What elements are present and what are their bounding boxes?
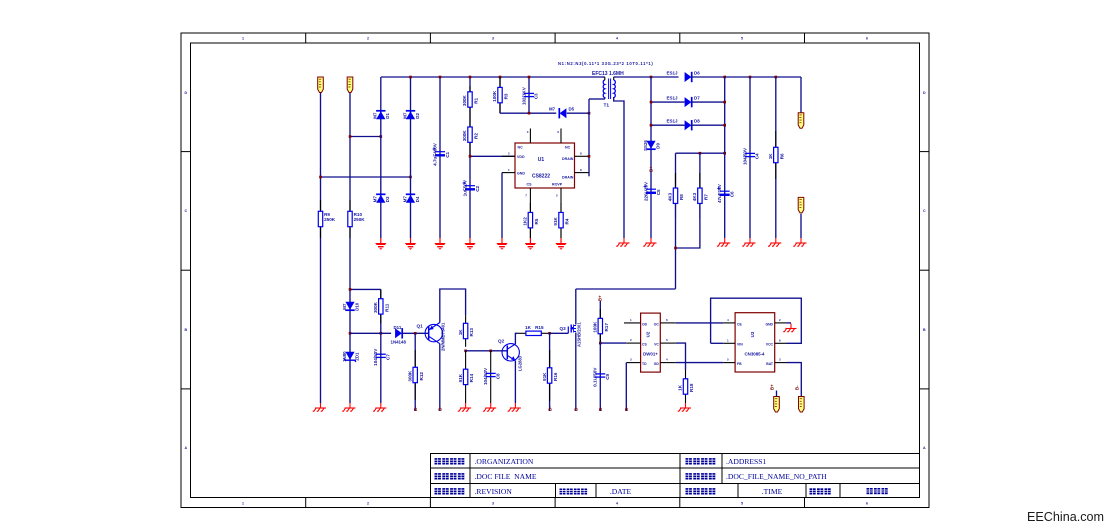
wire R3 column xyxy=(499,77,501,113)
svg-text:EFC13 1.6MH: EFC13 1.6MH xyxy=(592,71,624,77)
svg-text:GND: GND xyxy=(765,323,773,327)
svg-text:R11: R11 xyxy=(384,303,389,312)
ground pin1 column xyxy=(313,403,326,411)
svg-text:GD: GD xyxy=(654,362,660,366)
svg-text:102/1KV: 102/1KV xyxy=(521,86,526,105)
svg-text:U2: U2 xyxy=(645,331,650,337)
svg-text:LG2883: LG2883 xyxy=(518,355,523,371)
svg-text:Q2: Q2 xyxy=(498,339,505,344)
svg-text:1: 1 xyxy=(242,502,244,506)
wire top rail left xyxy=(381,76,602,78)
svg-text:.ADDRESS1: .ADDRESS1 xyxy=(726,457,767,466)
capacitor C3 xyxy=(524,92,534,94)
svg-text:1K: 1K xyxy=(678,384,683,391)
bridge right column wire xyxy=(410,77,412,238)
sheet border frame xyxy=(181,33,929,508)
svg-text:300K: 300K xyxy=(407,370,412,382)
svg-text:C6: C6 xyxy=(730,191,735,197)
ground C7 xyxy=(373,403,386,411)
wire pin1 to bridge xyxy=(321,176,411,178)
wire secondary bottom to ground xyxy=(614,97,624,238)
svg-text:C5: C5 xyxy=(656,189,661,195)
resistor R15 xyxy=(518,332,526,334)
svg-text:D: D xyxy=(923,91,926,95)
svg-text:91K: 91K xyxy=(542,372,547,381)
diode D7 xyxy=(685,97,692,107)
resistor R1 xyxy=(469,86,471,92)
diode D4 xyxy=(406,195,415,203)
wire divider line xyxy=(676,152,725,154)
svg-text:M7: M7 xyxy=(373,196,378,203)
resistor R12 xyxy=(414,333,416,411)
svg-text:250K: 250K xyxy=(354,217,366,222)
svg-text:.ORGANIZATION: .ORGANIZATION xyxy=(475,457,534,466)
svg-text:VC: VC xyxy=(654,343,659,347)
ground bridge right xyxy=(405,238,416,250)
svg-text:R2: R2 xyxy=(474,133,479,139)
svg-text:1N80: 1N80 xyxy=(342,351,347,362)
wire secondary top rail xyxy=(616,76,679,78)
resistor R18 xyxy=(685,370,687,379)
ground C1 xyxy=(434,238,445,250)
wire D10 ZD1 column xyxy=(349,238,351,403)
resistor R17 xyxy=(599,301,601,343)
svg-text:R17: R17 xyxy=(604,323,609,332)
wire R17 to U2 xyxy=(600,342,626,344)
diode D5 xyxy=(560,108,567,118)
svg-text:R18: R18 xyxy=(689,383,694,392)
ground U1 xyxy=(496,238,507,250)
resistor R16 xyxy=(549,333,551,411)
svg-text:Q1: Q1 xyxy=(417,324,424,329)
svg-text:D8: D8 xyxy=(694,119,700,124)
svg-text:220U16V: 220U16V xyxy=(643,181,648,201)
wire VDD feed xyxy=(470,155,515,157)
wire snub rail bottom-left xyxy=(350,288,381,290)
svg-text:5: 5 xyxy=(741,37,743,41)
svg-text:1K2: 1K2 xyxy=(523,217,528,226)
transistor Q3 mosfet xyxy=(567,327,569,334)
resistor R5 xyxy=(529,202,531,238)
svg-text:6: 6 xyxy=(866,37,868,41)
svg-text:B: B xyxy=(184,328,187,332)
svg-text:BAT: BAT xyxy=(766,362,774,366)
svg-text:4K3: 4K3 xyxy=(692,192,697,201)
svg-text:C4: C4 xyxy=(755,153,760,159)
svg-text:N1:N2:N3(0.11*1 33G.23*2 10T0.: N1:N2:N3(0.11*1 33G.23*2 10T0.11*1) xyxy=(558,61,653,66)
svg-text:B-: B- xyxy=(438,406,443,411)
svg-text:D5: D5 xyxy=(569,107,575,112)
svg-text:91K: 91K xyxy=(553,216,558,225)
svg-text:1K: 1K xyxy=(525,325,532,330)
diode D10 xyxy=(345,302,354,310)
svg-text:B-: B- xyxy=(598,406,603,411)
zener ZD1 xyxy=(345,352,354,360)
svg-text:D11: D11 xyxy=(394,325,402,330)
svg-text:.DOC FILE NAME: .DOC FILE NAME xyxy=(475,472,537,481)
svg-text:R10: R10 xyxy=(354,212,363,217)
svg-text:T1: T1 xyxy=(604,103,610,109)
svg-text:Q3: Q3 xyxy=(560,326,567,331)
wire R6 column xyxy=(775,77,777,238)
svg-text:250K: 250K xyxy=(324,217,336,222)
diode D2 xyxy=(406,111,415,119)
wire R11 C7 column xyxy=(380,289,382,403)
svg-text:D: D xyxy=(184,91,187,95)
svg-text:D10: D10 xyxy=(354,302,359,311)
svg-text:VCC: VCC xyxy=(766,343,774,347)
connector pin P1 output+ xyxy=(798,113,804,129)
ground U3 pin2 xyxy=(783,324,796,332)
svg-text:ZD1: ZD1 xyxy=(354,352,359,361)
capacitor C6 xyxy=(720,190,730,192)
svg-text:DW01+: DW01+ xyxy=(643,351,658,356)
svg-text:R15: R15 xyxy=(535,325,544,330)
svg-text:M7: M7 xyxy=(402,112,407,119)
svg-text:R3: R3 xyxy=(504,93,509,99)
wire Q2 collector up xyxy=(515,333,517,344)
svg-text:R14: R14 xyxy=(469,373,474,382)
ground secondary xyxy=(616,238,629,246)
svg-text:104/50V: 104/50V xyxy=(373,348,378,366)
wire AC pin2 vertical xyxy=(349,93,351,238)
svg-text:104/50V: 104/50V xyxy=(742,147,747,165)
U3 pins xyxy=(723,322,735,324)
connector pin J1 xyxy=(318,77,324,93)
ground C4 xyxy=(742,238,755,246)
wire snubber bottom xyxy=(500,112,556,114)
svg-text:FB: FB xyxy=(737,362,742,366)
wire Q3 drain up xyxy=(575,289,577,325)
ground R14 xyxy=(458,403,471,411)
svg-text:NC: NC xyxy=(565,146,571,150)
svg-text:ES1J: ES1J xyxy=(667,71,679,76)
ground ZD1 xyxy=(342,403,355,411)
wire Q3 source down xyxy=(575,333,577,412)
op-amp U2 DW01 xyxy=(641,313,661,372)
diode D11 xyxy=(395,328,402,338)
svg-text:A1SHB/2301: A1SHB/2301 xyxy=(577,322,582,347)
svg-text:M7: M7 xyxy=(342,303,347,310)
svg-text:2: 2 xyxy=(367,37,369,41)
svg-text:CN3085-4: CN3085-4 xyxy=(744,351,765,356)
svg-text:DRAIN: DRAIN xyxy=(562,176,574,180)
wire U2 pin6 to U3 xyxy=(676,322,724,324)
resistor R6 xyxy=(775,131,777,147)
wire R7 R8 bottoms xyxy=(676,203,700,248)
capacitor C2 xyxy=(465,185,475,187)
ground R6 xyxy=(768,238,781,246)
wire R1 R2 C2 column xyxy=(469,77,471,238)
svg-text:U3: U3 xyxy=(750,331,755,337)
U1 pins xyxy=(529,129,531,144)
svg-text:D6: D6 xyxy=(694,71,700,76)
diode D6 xyxy=(685,72,692,82)
svg-text:R12: R12 xyxy=(419,372,424,381)
svg-text:GND: GND xyxy=(517,172,525,176)
capacitor C8 xyxy=(490,351,492,403)
svg-text:A: A xyxy=(923,446,926,450)
svg-text:4: 4 xyxy=(616,502,618,506)
svg-text:R4: R4 xyxy=(565,218,570,224)
svg-text:C7: C7 xyxy=(385,354,390,360)
ground bridge left xyxy=(375,238,386,250)
svg-text:6: 6 xyxy=(866,502,868,506)
svg-text:B-: B- xyxy=(624,406,629,411)
wire U2 pin4 to U3 xyxy=(676,362,724,364)
svg-text:R16: R16 xyxy=(553,372,558,381)
wire output to pin xyxy=(800,77,802,113)
capacitor C5 xyxy=(646,188,656,190)
svg-text:R7: R7 xyxy=(704,194,709,200)
connector pin J2 xyxy=(347,77,353,93)
wire U2 to R18 xyxy=(676,343,686,370)
svg-text:B+: B+ xyxy=(770,384,775,390)
svg-text:D2: D2 xyxy=(415,113,420,119)
wire D9 C5 column xyxy=(650,77,652,238)
svg-text:SS26: SS26 xyxy=(643,140,648,151)
svg-text:100K: 100K xyxy=(492,90,497,102)
wire feedback rail xyxy=(576,288,676,290)
wire drain node vertical xyxy=(588,99,590,176)
wire C3 column xyxy=(528,77,530,113)
U2 pins xyxy=(624,322,641,324)
svg-text:U1: U1 xyxy=(538,157,545,163)
svg-text:OC: OC xyxy=(654,323,660,327)
svg-text:R1: R1 xyxy=(474,97,479,103)
resistor R10 xyxy=(349,200,351,211)
resistor R2 xyxy=(469,113,471,127)
op-amp U3 CN3085 xyxy=(735,313,775,372)
wire R13 R14 junction xyxy=(464,350,467,353)
svg-text:D1: D1 xyxy=(385,113,390,119)
svg-text:100K: 100K xyxy=(593,321,598,333)
svg-text:3: 3 xyxy=(492,502,494,506)
svg-text:C: C xyxy=(923,209,926,213)
svg-text:A: A xyxy=(184,446,187,450)
svg-text:NC: NC xyxy=(518,146,524,150)
svg-text:OD: OD xyxy=(642,323,648,327)
svg-text:R5: R5 xyxy=(534,218,539,224)
svg-text:M7: M7 xyxy=(549,107,556,112)
ground Q2 xyxy=(508,403,521,411)
wire D8 anode line xyxy=(651,124,685,126)
svg-text:TD: TD xyxy=(642,362,647,366)
resistor R7 xyxy=(699,153,701,188)
svg-text:CS: CS xyxy=(527,183,533,187)
svg-text:B+: B+ xyxy=(598,295,603,301)
transistor Q1 PNP xyxy=(425,324,442,341)
title block table xyxy=(431,454,920,498)
svg-text:.TIME: .TIME xyxy=(762,487,783,496)
transformer T1 xyxy=(604,97,606,99)
svg-text:300K: 300K xyxy=(462,94,467,106)
svg-text:VDD: VDD xyxy=(517,155,525,159)
diode D1 xyxy=(376,111,385,119)
transistor Q2 NPN xyxy=(502,344,519,361)
svg-text:R8: R8 xyxy=(679,194,684,200)
capacitor C4 xyxy=(745,152,755,154)
wire pin2 to bridge xyxy=(350,136,381,138)
ground R18 xyxy=(678,403,691,411)
svg-text:CE: CE xyxy=(737,323,742,327)
svg-text:104/50V: 104/50V xyxy=(483,367,488,385)
bridge left column wire xyxy=(380,77,382,238)
svg-text:B-: B- xyxy=(548,406,553,411)
svg-text:D7: D7 xyxy=(694,96,700,101)
resistor R4 xyxy=(560,202,562,238)
svg-text:C9: C9 xyxy=(605,373,610,379)
svg-text:B-: B- xyxy=(574,406,579,411)
svg-text:.DATE: .DATE xyxy=(610,487,632,496)
svg-text:C3: C3 xyxy=(534,93,539,99)
svg-text:C2: C2 xyxy=(475,185,480,191)
svg-text:3: 3 xyxy=(492,37,494,41)
svg-text:.REVISION: .REVISION xyxy=(475,487,513,496)
op-amp U1 CS8222 xyxy=(515,143,575,188)
diode D3 xyxy=(376,195,385,203)
wire C4 column xyxy=(749,77,751,238)
title block text xyxy=(435,458,465,464)
wire rail after D6 xyxy=(692,76,801,78)
resistor R8 xyxy=(675,153,677,188)
svg-text:4.7uF400V: 4.7uF400V xyxy=(432,142,437,166)
resistor R14 xyxy=(465,351,467,369)
wire D11 to Q1 xyxy=(402,332,428,334)
wire U1 gnd xyxy=(501,173,503,238)
wire AC pin1 vertical xyxy=(320,93,322,403)
svg-text:1: 1 xyxy=(242,37,244,41)
ground C6 xyxy=(717,238,730,246)
connector pin battery positive xyxy=(774,397,780,413)
svg-text:1K: 1K xyxy=(458,329,463,336)
svg-text:1uF50V: 1uF50V xyxy=(462,179,467,196)
wire R15 to Q3 gate xyxy=(550,332,569,334)
svg-text:2: 2 xyxy=(367,502,369,506)
svg-text:B-: B- xyxy=(413,406,418,411)
svg-text:D3: D3 xyxy=(385,196,390,202)
svg-text:M7: M7 xyxy=(373,112,378,119)
svg-text:0.1U/50V: 0.1U/50V xyxy=(593,367,598,387)
wire C1 column xyxy=(439,77,441,238)
svg-text:1N4148: 1N4148 xyxy=(391,340,407,345)
connector pin battery negative xyxy=(799,397,805,413)
svg-text:300K: 300K xyxy=(373,301,378,313)
svg-text:47uF16V: 47uF16V xyxy=(717,183,722,203)
wire P2 to ground xyxy=(800,214,802,238)
svg-text:ES1J: ES1J xyxy=(667,96,679,101)
wire base line xyxy=(350,332,391,334)
svg-text:R13: R13 xyxy=(469,328,474,337)
capacitor C7 xyxy=(376,353,386,355)
diode D8 xyxy=(685,120,692,130)
wire diode cathode column xyxy=(724,77,726,238)
svg-text:D9: D9 xyxy=(655,143,660,149)
svg-text:B+: B+ xyxy=(649,166,654,172)
svg-text:2N/MMBT5401: 2N/MMBT5401 xyxy=(441,322,446,351)
resistor R13 xyxy=(465,315,467,323)
diode D9 xyxy=(646,141,655,149)
svg-text:B: B xyxy=(923,328,926,332)
svg-text:1K: 1K xyxy=(768,153,773,160)
svg-text:R6: R6 xyxy=(779,153,784,159)
svg-text:4: 4 xyxy=(616,37,618,41)
svg-text:.DOC_FILE_NAME_NO_PATH: .DOC_FILE_NAME_NO_PATH xyxy=(726,472,827,481)
svg-text:ROVP: ROVP xyxy=(552,183,563,187)
wire Q1 collector down xyxy=(439,344,441,411)
connector pin P2 output- xyxy=(798,197,804,213)
wire U3 BAT to pin xyxy=(787,363,802,397)
resistor R11 xyxy=(380,289,382,298)
ground P2 xyxy=(793,238,806,246)
svg-text:300K: 300K xyxy=(462,130,467,142)
ground C8 xyxy=(483,403,496,411)
resistor R3 xyxy=(499,77,501,87)
svg-text:4K3: 4K3 xyxy=(668,192,673,201)
wire drain to primary xyxy=(589,98,605,100)
svg-text:M7: M7 xyxy=(402,196,407,203)
svg-text:VIN: VIN xyxy=(737,343,743,347)
svg-text:EEChina.com: EEChina.com xyxy=(1027,510,1104,524)
wire to Q2 base xyxy=(466,350,508,352)
svg-text:R9: R9 xyxy=(324,212,330,217)
svg-text:91K: 91K xyxy=(458,373,463,382)
wire Q1 emitter up + bridge xyxy=(440,289,466,323)
svg-text:ES1J: ES1J xyxy=(667,119,679,124)
svg-text:CS8222: CS8222 xyxy=(532,174,550,180)
svg-text:B-: B- xyxy=(795,385,800,390)
svg-text:D4: D4 xyxy=(415,196,420,202)
ground C5 xyxy=(643,238,656,246)
wire D5 to drain node xyxy=(567,112,589,114)
ground C2 xyxy=(464,238,475,250)
svg-text:C8: C8 xyxy=(495,373,500,379)
wire Q2 emitter to ground xyxy=(514,361,516,403)
wire U3 loop xyxy=(711,298,802,343)
capacitor C1 xyxy=(435,151,445,153)
wire D7 anode line xyxy=(651,101,685,103)
svg-text:DRAIN: DRAIN xyxy=(562,157,574,161)
svg-text:5: 5 xyxy=(741,502,743,506)
svg-text:CS: CS xyxy=(642,343,647,347)
resistor R9 xyxy=(320,200,322,211)
wire U2 pin3 down xyxy=(625,363,627,411)
svg-text:C1: C1 xyxy=(445,151,450,157)
capacitor C9 xyxy=(599,343,601,411)
svg-text:C: C xyxy=(184,209,187,213)
